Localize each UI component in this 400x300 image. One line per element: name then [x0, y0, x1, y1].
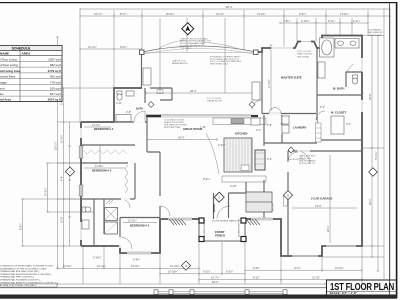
great room west wall	[147, 116, 160, 219]
bath sink	[126, 91, 134, 96]
svg-text:26'-0": 26'-0"	[178, 136, 185, 140]
top extension lines	[80, 10, 390, 279]
svg-text:22'-1": 22'-1"	[326, 225, 330, 232]
svg-text:BEDROOM # 3: BEDROOM # 3	[92, 169, 112, 173]
svg-text:12'-0¾": 12'-0¾"	[131, 264, 140, 268]
sheet right border inner line	[388, 2, 391, 298]
garage door gaps	[292, 246, 356, 256]
master suite exterior walls	[245, 36, 362, 257]
svg-text:SEE DETAIL 3/A-7: SEE DETAIL 3/A-7	[210, 63, 229, 66]
kitchen east counter	[222, 150, 266, 182]
svg-text:2nd Floor Living: 2nd Floor Living	[0, 63, 18, 67]
right dim lines	[322, 9, 384, 279]
svg-text:57'-2¾": 57'-2¾"	[374, 151, 378, 160]
bed4 bed3 divider wall	[81, 145, 135, 163]
interior dim marks bedroom2	[123, 219, 157, 223]
bottom extension lines	[83, 242, 362, 284]
svg-text:Total Living Area: Total Living Area	[0, 69, 21, 73]
front windows white gaps	[81, 42, 362, 254]
svg-text:8'-7¾": 8'-7¾"	[120, 12, 127, 16]
outdoor kitchen counter	[143, 68, 151, 85]
svg-text:NATIONAL ELECTRICAL CODE (NEC): NATIONAL ELECTRICAL CODE (NEC)	[0, 284, 37, 287]
interior dim laundry mud	[267, 123, 272, 161]
master ceiling note	[297, 51, 312, 58]
mudroom garage walls	[288, 151, 362, 256]
bottom dim line garage	[245, 266, 362, 272]
svg-text:6'-2": 6'-2"	[320, 105, 325, 109]
svg-text:Porch: Porch	[0, 86, 5, 90]
interior dim kitchen small	[200, 125, 261, 147]
sheet inner bottom border line	[0, 286, 327, 289]
interior door gaps	[120, 120, 316, 248]
interior dim master closet	[320, 105, 351, 126]
svg-text:PORCH: PORCH	[215, 234, 225, 238]
bottom-left code notes	[0, 265, 58, 288]
svg-text:TRAY CEILING: TRAY CEILING	[297, 53, 312, 56]
master bath tub	[320, 38, 335, 57]
top dim line level2	[80, 12, 390, 18]
master bay note	[368, 29, 383, 37]
svg-text:W/ 2x10 HDR: W/ 2x10 HDR	[368, 35, 382, 37]
svg-text:INTERNATIONAL PLUMBING CODE (I: INTERNATIONAL PLUMBING CODE (IPC),	[0, 279, 41, 282]
svg-text:109 sq ft: 109 sq ft	[50, 86, 61, 90]
svg-text:2297 sq ft: 2297 sq ft	[48, 57, 61, 61]
interior dim entry	[203, 177, 237, 188]
bath toilet	[117, 91, 122, 100]
graphic scale bar	[154, 290, 287, 295]
svg-text:4'-11": 4'-11"	[116, 101, 122, 105]
svg-text:2'-4": 2'-4"	[256, 128, 261, 132]
bath2 toilet	[82, 207, 91, 212]
top center note text	[180, 37, 212, 50]
kitchen east wall	[263, 115, 265, 219]
svg-text:627 sq ft: 627 sq ft	[50, 92, 61, 96]
svg-text:12'-0" CLG HT: 12'-0" CLG HT	[207, 98, 222, 100]
interior dim garage	[292, 155, 357, 243]
svg-text:4'-1¼": 4'-1¼"	[353, 19, 360, 23]
svg-text:MASTER SUITE: MASTER SUITE	[281, 76, 302, 80]
laundry machines	[282, 116, 289, 124]
left dim lines	[54, 37, 115, 268]
svg-text:302 sq ft: 302 sq ft	[50, 75, 61, 79]
svg-text:HDR PER PLAN: HDR PER PLAN	[164, 126, 181, 129]
interior dim marks bedroom3	[84, 164, 125, 168]
svg-text:34'-7¾": 34'-7¾"	[94, 12, 103, 16]
master shower	[335, 39, 359, 49]
svg-text:TYP. U.N.O.: TYP. U.N.O.	[180, 48, 192, 50]
svg-text:12'-9¼": 12'-9¼"	[128, 219, 137, 223]
svg-text:11'-8¾": 11'-8¾"	[95, 164, 104, 168]
far left dim lines lower	[19, 163, 95, 246]
svg-text:6'-2½": 6'-2½"	[203, 270, 210, 274]
svg-text:2'-8": 2'-8"	[126, 110, 131, 114]
svg-text:3'-10¼": 3'-10¼"	[93, 256, 102, 260]
bottom overall dim	[58, 280, 326, 285]
svg-text:2x6 FRAMED: 2x6 FRAMED	[368, 29, 382, 32]
svg-text:5'-8": 5'-8"	[267, 123, 272, 127]
bottom dim line left	[58, 256, 200, 270]
svg-text:12'-7¾": 12'-7¾"	[211, 276, 220, 280]
fireplace great room	[252, 82, 260, 100]
mud closet box	[105, 208, 118, 221]
svg-text:AREA: AREA	[22, 52, 32, 56]
svg-text:BAY WINDOW: BAY WINDOW	[368, 31, 383, 34]
master west wall	[261, 48, 263, 114]
mudroom lockers	[316, 123, 322, 142]
keynote diamond entry	[214, 192, 224, 202]
master south wall corridor	[262, 113, 316, 115]
keynote diamond garage	[283, 190, 292, 199]
svg-text:482 sq ft: 482 sq ft	[50, 63, 61, 67]
keynote diamond porch	[181, 261, 190, 270]
patio left wall / outdoor kitchen wall	[141, 54, 143, 88]
porch outline	[199, 219, 245, 241]
kitchen north cabinets	[213, 118, 266, 125]
svg-text:Patio: Patio	[0, 92, 4, 96]
svg-text:10'-9¾": 10'-9¾"	[335, 266, 344, 270]
svg-text:6'-2½": 6'-2½"	[226, 270, 233, 274]
svg-text:1st Floor Living: 1st Floor Living	[0, 57, 17, 61]
master wc	[346, 64, 362, 87]
great room interior dim line	[147, 139, 217, 141]
svg-text:53'-1¾": 53'-1¾"	[54, 141, 58, 150]
schedule header row	[0, 46, 62, 51]
svg-text:INTERNATIONAL BUILDING CODE (I: INTERNATIONAL BUILDING CODE (IBC),	[0, 270, 40, 273]
sheet right border outer line	[396, 2, 398, 298]
svg-text:4'-10¼": 4'-10¼"	[301, 19, 310, 23]
mud bench	[284, 196, 288, 206]
svg-text:9'-10": 9'-10"	[253, 276, 260, 280]
svg-text:30'-8¾": 30'-8¾"	[166, 12, 175, 16]
svg-text:84'-0": 84'-0"	[212, 280, 219, 284]
patio slab edge	[142, 52, 258, 54]
svg-text:21'-1¾": 21'-1¾"	[88, 45, 97, 49]
svg-text:NAME: NAME	[0, 52, 9, 56]
great room north wall sliding door	[146, 115, 161, 118]
patio posts	[140, 50, 145, 55]
svg-text:17'-5½": 17'-5½"	[267, 79, 271, 88]
keynote diamond left wall	[65, 167, 74, 176]
svg-text:INTERNATIONAL EXISTING BUILDIN: INTERNATIONAL EXISTING BUILDING CODE (IE…	[0, 273, 52, 276]
svg-text:6'-1¼": 6'-1¼"	[328, 19, 335, 23]
svg-text:5'-4¾": 5'-4¾"	[133, 258, 140, 262]
interior dim marks bedroom4	[84, 123, 111, 127]
svg-text:BATH: BATH	[136, 107, 143, 111]
svg-text:BREAK ABOVE: BREAK ABOVE	[172, 62, 188, 65]
svg-text:10'-10¾": 10'-10¾"	[168, 270, 178, 274]
svg-text:L CONSTRUCTION WORK SHALL CONF: L CONSTRUCTION WORK SHALL CONFORM TO THE	[0, 265, 53, 268]
top dim line level3 right	[280, 19, 368, 25]
interior dim string master	[267, 45, 273, 110]
butler pantry double doors	[269, 108, 281, 114]
garage post note	[288, 159, 306, 161]
interior dim patio	[146, 89, 256, 94]
svg-text:29'-6": 29'-6"	[368, 93, 372, 100]
keynote diamond garage wall	[288, 147, 294, 153]
svg-text:LINE OF CLG: LINE OF CLG	[172, 61, 186, 63]
mcloset shelving	[331, 116, 344, 134]
svg-text:10'-11": 10'-11"	[216, 12, 224, 16]
interior dim bath	[116, 101, 131, 114]
svg-text:28'-4": 28'-4"	[190, 89, 197, 93]
svg-text:BEDROOM # 4: BEDROOM # 4	[94, 127, 114, 131]
svg-text:11'-0": 11'-0"	[294, 266, 300, 270]
svg-text:5674 sq ft: 5674 sq ft	[48, 98, 61, 102]
garage entry door arc	[297, 151, 310, 164]
schedule table	[0, 46, 62, 102]
covered patio arc roof line	[142, 46, 256, 52]
stairs	[246, 192, 275, 212]
svg-text:21'-6¾": 21'-6¾"	[257, 12, 266, 16]
column header row	[0, 51, 62, 56]
svg-text:6x6 WD POST TYP: 6x6 WD POST TYP	[204, 218, 206, 237]
svg-text:10'-10¾": 10'-10¾"	[170, 264, 180, 268]
svg-text:11'-6¾": 11'-6¾"	[44, 187, 48, 196]
svg-text:Covered Patio: Covered Patio	[0, 75, 16, 79]
bottom dim second level	[199, 276, 362, 282]
svg-text:8'-2¾": 8'-2¾"	[19, 223, 23, 230]
svg-text:9'-8": 9'-8"	[60, 176, 64, 181]
great room notes	[172, 61, 188, 66]
svg-text:8x8 WOOD POST: 8x8 WOOD POST	[288, 159, 306, 161]
master bath closet divider walls	[317, 48, 362, 140]
keynote diamond right margin	[369, 168, 377, 176]
bottom dim line mid	[160, 270, 245, 276]
svg-text:8'-0¾": 8'-0¾"	[120, 45, 127, 49]
wing wall hatch right of porch	[246, 219, 260, 225]
svg-text:9'-6¾": 9'-6¾"	[299, 12, 306, 16]
svg-text:21'-10": 21'-10"	[312, 276, 320, 280]
porch posts	[199, 218, 204, 223]
table rows	[0, 57, 62, 101]
keynote diamond sliding door left	[148, 102, 154, 108]
title block border	[327, 280, 398, 297]
upper interior dim line	[80, 45, 142, 50]
title scale divider	[327, 290, 398, 292]
svg-text:5'-0": 5'-0"	[346, 122, 351, 126]
wing wall hatch left of porch	[169, 219, 186, 225]
svg-text:779 sq ft: 779 sq ft	[50, 81, 61, 85]
north arrow diamond	[182, 23, 194, 35]
bath2 sink	[82, 220, 89, 229]
svg-text:5'-10": 5'-10"	[230, 184, 237, 188]
svg-text:STONE VENEER WAINSCOT: STONE VENEER WAINSCOT	[212, 220, 241, 223]
svg-text:23'-5": 23'-5"	[315, 204, 322, 208]
kitchen island	[206, 133, 252, 174]
svg-text:M. BATH: M. BATH	[333, 87, 344, 91]
note leader curves	[158, 40, 185, 49]
sheet bottom border band	[0, 295, 397, 299]
svg-text:GREAT ROOM: GREAT ROOM	[183, 127, 203, 131]
svg-text:10'-0" CLG HT: 10'-0" CLG HT	[297, 51, 312, 53]
svg-text:9'-0¼": 9'-0¼"	[253, 266, 260, 270]
sheet top border	[0, 2, 397, 3]
bedroom2 walls	[120, 218, 160, 247]
svg-text:LAUNDRY: LAUNDRY	[293, 126, 307, 130]
svg-text:86'-0": 86'-0"	[226, 5, 233, 9]
svg-text:SCHEDULE: SCHEDULE	[12, 47, 31, 51]
bed3 closet wall	[134, 163, 136, 199]
svg-text:11'-0¾": 11'-0¾"	[60, 134, 64, 143]
svg-text:NOTES SHT P-1: NOTES SHT P-1	[299, 163, 316, 165]
bath interior walls	[114, 88, 172, 122]
svg-text:Total Area: Total Area	[0, 98, 11, 102]
svg-text:REQUIREMENTS OF THE FOLLOWING: REQUIREMENTS OF THE FOLLOWING CODES:	[0, 268, 47, 270]
door swing arcs	[120, 100, 325, 249]
svg-text:6'-4": 6'-4"	[267, 157, 272, 161]
svg-text:KITCHEN: KITCHEN	[235, 132, 247, 136]
svg-text:UP 17R: UP 17R	[273, 203, 275, 211]
keynote diamond sliding door right	[249, 102, 255, 108]
kitchen fridge	[251, 118, 260, 125]
svg-text:Garage: Garage	[0, 81, 7, 85]
svg-text:INTERNATIONAL FIRE CODE (IFC),: INTERNATIONAL FIRE CODE (IFC),	[0, 276, 34, 279]
bath tub	[116, 115, 131, 122]
hall walls left wing	[94, 199, 104, 246]
svg-text:2779 sq ft: 2779 sq ft	[48, 69, 61, 73]
left wing exterior walls	[81, 88, 199, 253]
svg-text:21'-9¼": 21'-9¼"	[63, 264, 72, 268]
svg-text:SEE DETAIL: SEE DETAIL	[297, 55, 310, 58]
svg-text:BEDROOM # 2: BEDROOM # 2	[130, 224, 150, 228]
laundry walls	[264, 115, 317, 143]
svg-text:ENTRY: ENTRY	[212, 203, 216, 212]
svg-text:8'-4¾": 8'-4¾"	[203, 177, 210, 181]
bed3 bottom wall	[81, 198, 135, 200]
svg-text:26'-1": 26'-1"	[368, 198, 372, 205]
garage note block	[299, 155, 316, 166]
svg-text:M. CLOSET: M. CLOSET	[331, 111, 347, 115]
svg-text:2'-4¾": 2'-4¾"	[218, 143, 225, 147]
master vanities	[318, 62, 325, 78]
svg-text:10'-1¼": 10'-1¼"	[97, 264, 106, 268]
svg-text:2 CAR GARAGE: 2 CAR GARAGE	[311, 197, 333, 201]
svg-text:12'-6": 12'-6"	[60, 216, 64, 223]
entry walls	[214, 182, 247, 219]
top dim line overall	[80, 5, 390, 11]
svg-text:SCALE: 1/4" = 1'-0": SCALE: 1/4" = 1'-0"	[330, 291, 358, 295]
svg-text:13'-8¾": 13'-8¾"	[340, 12, 349, 16]
svg-text:GREAT ROOM: GREAT ROOM	[207, 100, 222, 103]
